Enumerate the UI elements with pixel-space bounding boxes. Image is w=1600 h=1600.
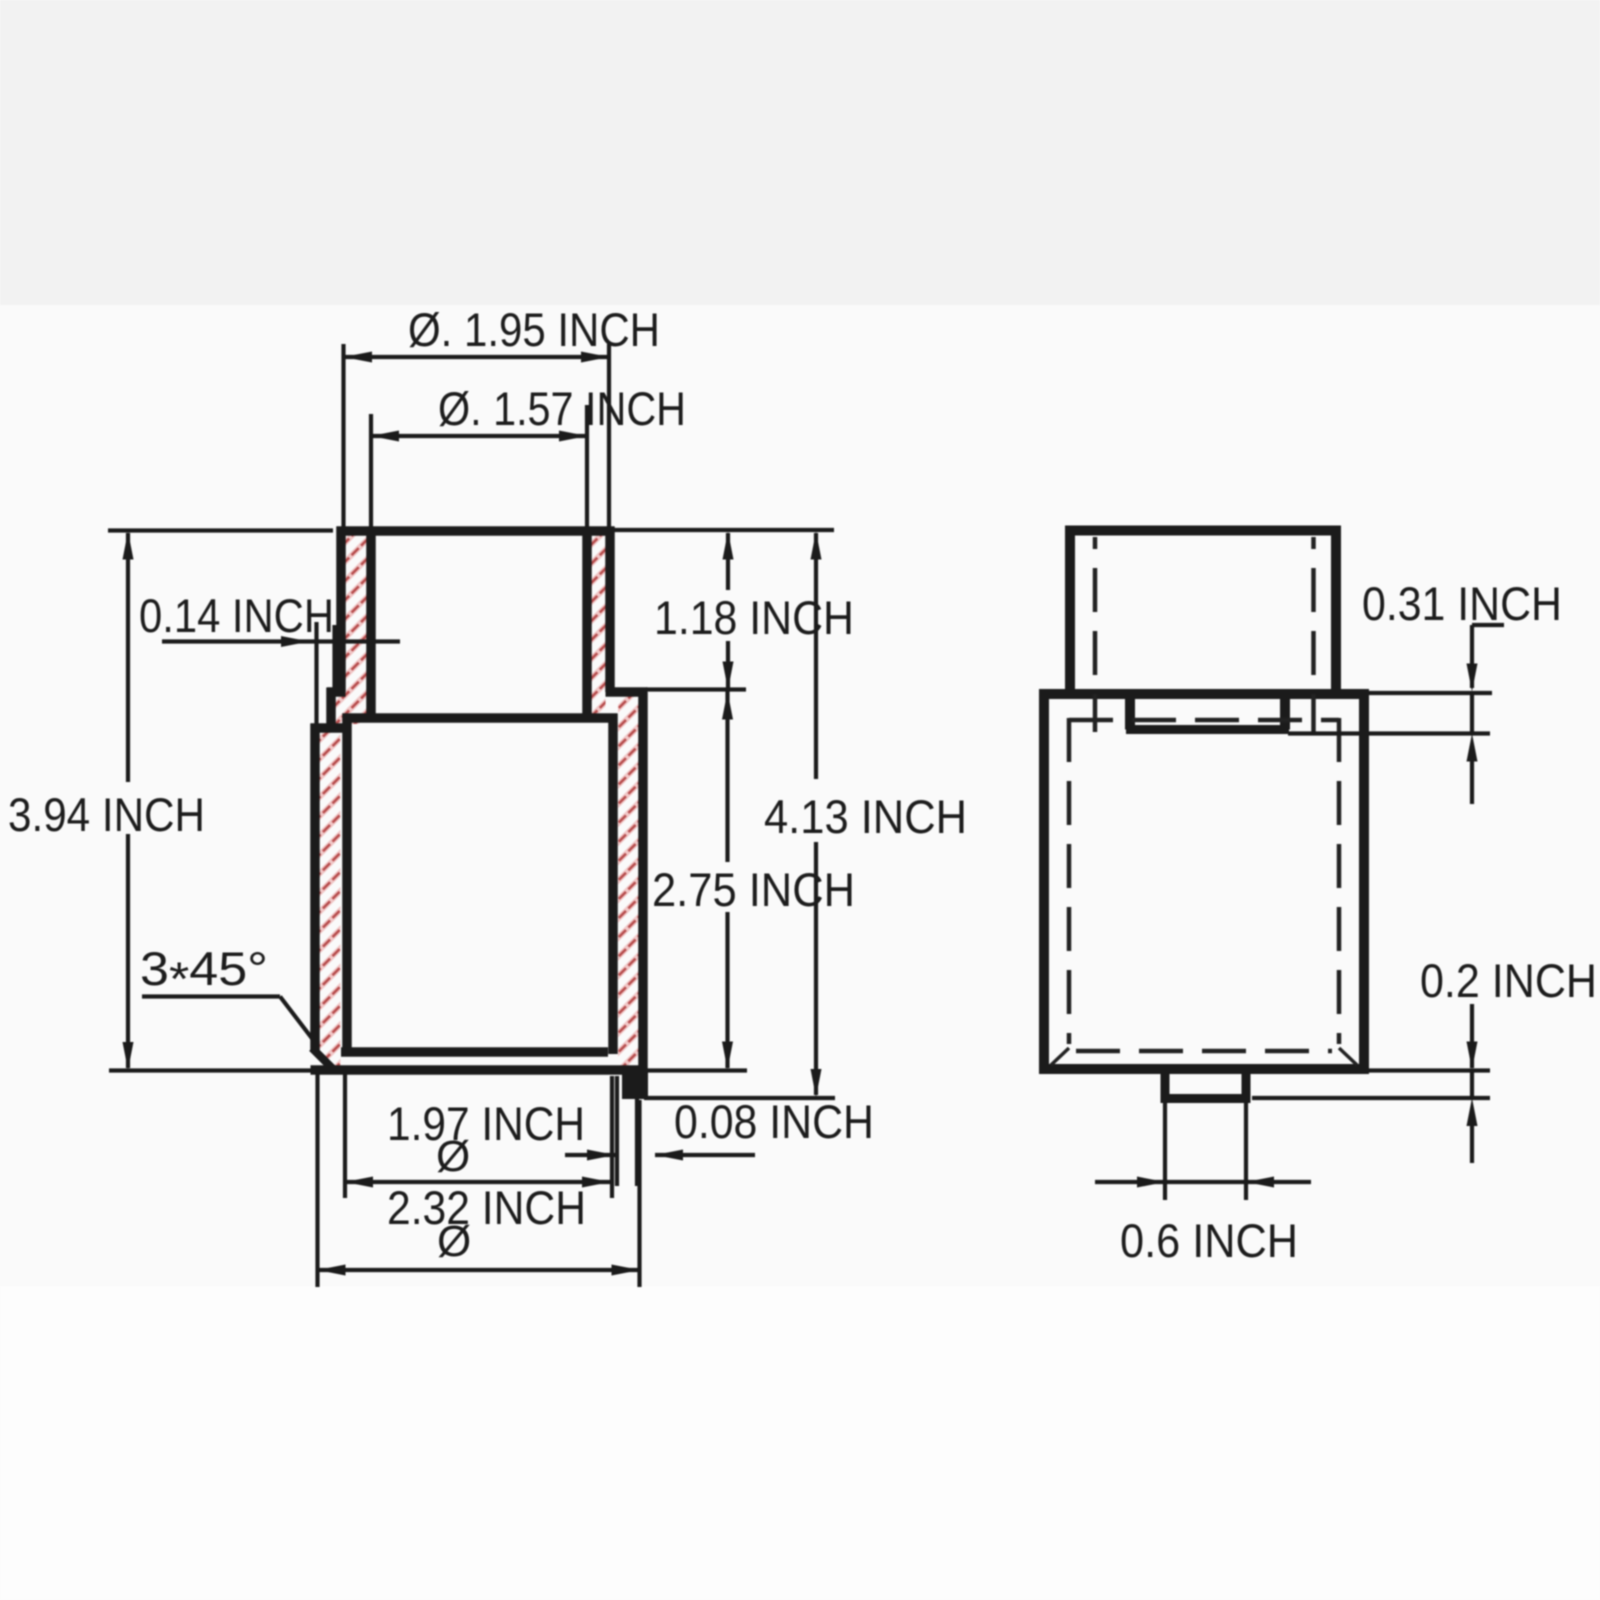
svg-text:Ø: Ø xyxy=(436,1132,470,1181)
svg-text:3.94 INCH: 3.94 INCH xyxy=(8,788,205,841)
svg-text:0.14 INCH: 0.14 INCH xyxy=(139,589,334,642)
svg-text:2.32 INCH: 2.32 INCH xyxy=(387,1181,586,1234)
svg-text:0.6 INCH: 0.6 INCH xyxy=(1120,1214,1298,1267)
svg-text:Ø: Ø xyxy=(437,1217,471,1266)
svg-text:0.08 INCH: 0.08 INCH xyxy=(674,1095,874,1148)
svg-text:Ø. 1.57 INCH: Ø. 1.57 INCH xyxy=(438,382,686,435)
svg-text:Ø. 1.95 INCH: Ø. 1.95 INCH xyxy=(408,303,660,356)
svg-text:0.2 INCH: 0.2 INCH xyxy=(1420,954,1597,1007)
svg-text:0.31 INCH: 0.31 INCH xyxy=(1362,577,1562,630)
svg-text:1.97 INCH: 1.97 INCH xyxy=(387,1097,585,1150)
svg-text:4.13 INCH: 4.13 INCH xyxy=(764,790,967,843)
svg-text:2.75 INCH: 2.75 INCH xyxy=(652,863,855,916)
svg-text:1.18 INCH: 1.18 INCH xyxy=(654,591,854,644)
